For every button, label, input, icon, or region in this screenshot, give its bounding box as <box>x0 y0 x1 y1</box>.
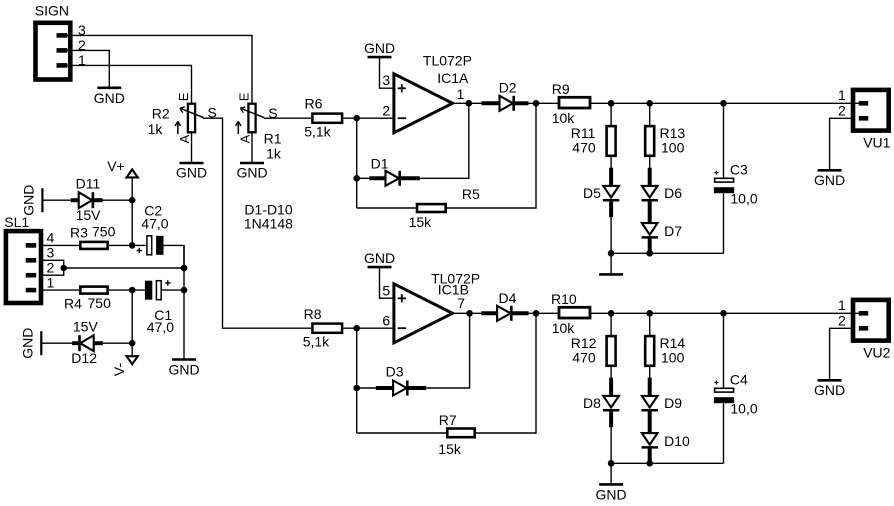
svg-text:6: 6 <box>382 313 390 329</box>
junction output/D1 feedback <box>466 100 473 107</box>
svg-text:D5: D5 <box>583 185 601 201</box>
diode D10 <box>648 412 652 434</box>
diode D3 <box>357 387 376 389</box>
svg-text:R8: R8 <box>304 306 322 322</box>
wire rail to ground <box>610 253 612 274</box>
wire rail to ground (bottom) <box>610 463 612 484</box>
junction C4 tap <box>720 310 727 317</box>
connector VU2 <box>853 300 889 341</box>
junction R11 tap <box>608 100 615 107</box>
junction D8 / rail <box>608 460 615 467</box>
wire R13 to D6 <box>649 157 651 170</box>
wire ground to D11 anode <box>42 199 70 201</box>
svg-text:15k: 15k <box>438 441 462 457</box>
svg-text:2: 2 <box>838 102 846 118</box>
wire rail to R11 <box>610 103 612 125</box>
junction D4/R7 <box>533 310 540 317</box>
junction R14 tap <box>646 310 653 317</box>
ground of bottom ladder <box>599 483 623 486</box>
capacitor C2 (polarized) <box>147 236 152 255</box>
ground left of D11 (rotated) <box>41 188 43 212</box>
ground of VU1 <box>818 169 842 172</box>
svg-text:GND: GND <box>176 164 207 180</box>
svg-text:1k: 1k <box>148 121 164 137</box>
ground under SIGN <box>97 87 121 90</box>
svg-text:D9: D9 <box>664 395 682 411</box>
wire rail to R13 <box>649 103 651 125</box>
svg-text:GND: GND <box>168 362 199 378</box>
diode D2 <box>482 101 500 105</box>
resistor R8 <box>312 324 342 333</box>
SIGN pin 3 bar <box>57 33 68 38</box>
resistor R3 <box>80 242 107 249</box>
svg-text:10k: 10k <box>552 110 576 126</box>
SL1 pin 1 bar <box>26 288 37 293</box>
diode D4 <box>481 311 497 315</box>
wire feedback left vertical (B) <box>356 328 358 433</box>
svg-text:R10: R10 <box>551 291 577 307</box>
svg-text:C4: C4 <box>730 371 748 387</box>
SIGN pin 1 bar <box>57 63 68 68</box>
junction R8/feedback <box>353 325 360 332</box>
wire D11 cathode to V+ node <box>103 199 133 201</box>
svg-text:D3: D3 <box>386 364 404 380</box>
V- supply symbol <box>131 343 133 356</box>
wire D4 to R10 <box>529 312 560 314</box>
SL1 pin 2 bar <box>26 273 37 278</box>
svg-text:15V: 15V <box>73 318 99 334</box>
svg-text:1k: 1k <box>266 146 282 162</box>
wire V+ node down to R3 node <box>131 200 133 245</box>
svg-text:E: E <box>236 92 251 101</box>
junction D3 row <box>353 385 360 392</box>
diode D1 <box>357 177 370 179</box>
wire R9 to VU1 pin 1 <box>590 102 860 104</box>
wire SL1 pin4 to R3 <box>41 244 79 246</box>
V+ supply symbol <box>131 177 133 200</box>
wire feedback left vertical (A) <box>356 118 358 208</box>
wire R14 to D9 <box>649 367 651 380</box>
svg-text:R5: R5 <box>462 186 480 202</box>
svg-text:3: 3 <box>47 245 55 261</box>
wire R1 wiper to R6 <box>264 117 311 119</box>
svg-text:GND: GND <box>364 40 395 56</box>
SL1 pin 3 bar <box>26 258 37 263</box>
junction R4/V- <box>129 287 136 294</box>
svg-text:100: 100 <box>661 349 685 365</box>
wire SIGN pin3 to R1 top <box>67 35 252 103</box>
connector VU1 <box>853 90 889 131</box>
junction C3 tap <box>720 100 727 107</box>
svg-text:R1: R1 <box>264 131 282 147</box>
wire R11 to D5 <box>610 157 612 170</box>
capacitor C1 (polarized) <box>145 281 152 300</box>
svg-text:5: 5 <box>382 282 390 298</box>
op-amp IC1B <box>394 284 453 343</box>
junction R6/feedback <box>353 115 360 122</box>
junction R13 tap <box>646 100 653 107</box>
svg-text:10,0: 10,0 <box>730 191 757 207</box>
svg-text:R9: R9 <box>552 81 570 97</box>
connector SIGN <box>36 23 71 80</box>
VU1 pin 2 bar <box>859 116 868 121</box>
svg-text:5,1k: 5,1k <box>303 333 330 349</box>
resistor R13 <box>645 126 654 156</box>
svg-text:D1: D1 <box>371 156 389 172</box>
node V+ junction <box>129 197 136 204</box>
wire D5 to ladder ground rail <box>610 217 612 253</box>
wire R4 node down to V- <box>131 290 133 343</box>
svg-text:V+: V+ <box>107 158 125 174</box>
wire R7 right to D4 cathode node <box>476 313 536 433</box>
svg-text:5,1k: 5,1k <box>304 123 331 139</box>
wire R8 to IC1B inverting input <box>344 327 394 329</box>
wire C2 to ground bus <box>164 245 185 268</box>
svg-text:D10: D10 <box>664 433 690 449</box>
svg-text:GND: GND <box>94 90 125 106</box>
svg-text:D2: D2 <box>499 79 517 95</box>
resistor R12 <box>607 336 616 366</box>
svg-text:VU1: VU1 <box>863 134 890 150</box>
wire rail to R12 <box>610 313 612 335</box>
svg-text:V-: V- <box>111 363 127 377</box>
svg-text:470: 470 <box>572 139 596 155</box>
potentiometer R1 <box>248 104 255 133</box>
SIGN pin 2 bar <box>57 48 68 53</box>
svg-text:D6: D6 <box>664 185 682 201</box>
junction ground bus / middle rail <box>181 265 188 272</box>
svg-text:7: 7 <box>457 295 465 311</box>
SL1 pin 4 bar <box>26 243 37 248</box>
VU2 pin 1 bar <box>859 311 868 316</box>
resistor R7 <box>447 429 474 438</box>
capacitor C4 (polarized) <box>723 313 725 388</box>
svg-text:C3: C3 <box>730 161 748 177</box>
svg-text:1: 1 <box>457 86 465 102</box>
svg-text:4: 4 <box>47 230 55 246</box>
svg-text:SIGN: SIGN <box>35 3 69 19</box>
svg-text:2: 2 <box>47 259 55 275</box>
ground bus vertical wire <box>183 245 185 359</box>
svg-text:10k: 10k <box>552 320 576 336</box>
diode D6 <box>648 168 652 187</box>
svg-text:TL072P: TL072P <box>423 53 472 69</box>
svg-text:IC1A: IC1A <box>437 70 469 86</box>
diode D8 <box>609 378 613 397</box>
wire D1 cathode to output <box>420 103 469 178</box>
svg-text:D8: D8 <box>583 395 601 411</box>
svg-text:D7: D7 <box>664 223 682 239</box>
wire middle rail to ground bus <box>64 267 184 269</box>
svg-text:10,0: 10,0 <box>730 401 757 417</box>
junction D7 / rail <box>646 250 653 257</box>
wire R3 to C2 <box>109 244 147 246</box>
wire IC1B output <box>453 312 484 314</box>
wire D12 anode to V- node <box>103 342 132 344</box>
junction D1 row <box>353 175 360 182</box>
op-amp IC1A <box>394 74 453 133</box>
wire SL1 pin1 to R4 <box>41 289 79 291</box>
wire R6 to IC1A inverting input <box>344 117 394 119</box>
svg-text:100: 100 <box>661 139 685 155</box>
svg-text:D11: D11 <box>76 176 101 192</box>
svg-text:R3: R3 <box>70 225 88 241</box>
svg-text:47,0: 47,0 <box>141 215 168 231</box>
svg-text:15V: 15V <box>76 207 102 223</box>
ladder ground rail (bottom channel) <box>611 462 723 464</box>
wire C1 to ground bus <box>161 289 184 291</box>
resistor R9 <box>559 97 590 108</box>
wire R10 to VU2 pin 1 <box>590 312 860 314</box>
zener diode D12 <box>72 341 78 345</box>
capacitor C3 (polarized) <box>723 103 725 178</box>
wire D8 to ladder ground rail <box>610 427 612 463</box>
wire VU1 pin2 to ground <box>830 118 855 169</box>
junction R3/V+/C2 <box>129 242 136 249</box>
ground left of D12 (rotated) <box>40 331 42 355</box>
resistor R4 <box>80 287 107 294</box>
svg-text:GND: GND <box>596 486 627 502</box>
svg-text:750: 750 <box>88 295 112 311</box>
svg-text:GND: GND <box>236 164 267 180</box>
resistor R11 <box>607 126 616 156</box>
ground of VU2 <box>818 379 842 382</box>
junction D5 / rail <box>608 250 615 257</box>
svg-text:47,0: 47,0 <box>147 319 174 335</box>
diode D5 <box>609 168 613 187</box>
svg-text:D12: D12 <box>71 350 97 366</box>
wire ground to IC1B pin 5 <box>380 268 394 298</box>
wire R7 left <box>357 432 446 434</box>
resistor R10 <box>559 307 590 318</box>
svg-text:1: 1 <box>47 274 55 290</box>
wire R12 to D8 <box>610 367 612 380</box>
svg-text:1: 1 <box>838 87 846 103</box>
ladder ground rail (top channel) <box>611 252 723 254</box>
svg-text:3: 3 <box>382 72 390 88</box>
svg-text:750: 750 <box>92 224 116 240</box>
junction ground bus / C1 <box>181 287 188 294</box>
junction V- node <box>129 340 136 347</box>
wire SL1 pin3 jog <box>41 260 64 275</box>
svg-text:2: 2 <box>838 312 846 328</box>
wire R5 left <box>357 207 416 209</box>
wire SIGN pin2 to ground <box>67 50 109 87</box>
connector SL1 <box>6 231 41 303</box>
svg-text:R7: R7 <box>439 412 457 428</box>
svg-text:GND: GND <box>814 382 845 398</box>
svg-text:470: 470 <box>572 349 596 365</box>
wire D2 to R9 <box>529 102 560 104</box>
svg-text:1N4148: 1N4148 <box>244 216 293 232</box>
resistor R5 <box>417 204 446 212</box>
potentiometer R2 <box>188 104 195 133</box>
resistor R14 <box>645 336 654 366</box>
wire ground to IC1A pin 3 <box>380 58 394 88</box>
svg-text:GND: GND <box>814 172 845 188</box>
junction R12 tap <box>608 310 615 317</box>
wire R5 right to D2 cathode node <box>447 103 536 208</box>
wire D3 cathode to output <box>426 313 469 388</box>
svg-text:GND: GND <box>364 250 395 266</box>
ground of bus <box>172 358 196 361</box>
diode D9 <box>648 378 652 397</box>
ground of top ladder <box>599 273 623 276</box>
VU2 pin 2 bar <box>859 326 868 331</box>
svg-text:A: A <box>238 134 253 143</box>
wire IC1A output <box>453 102 482 104</box>
junction output/D3 feedback <box>466 310 473 317</box>
junction D2/R5 <box>533 100 540 107</box>
wire rail to R14 <box>649 313 651 335</box>
svg-text:15k: 15k <box>409 214 433 230</box>
VU1 pin 1 bar <box>859 101 868 106</box>
junction SL1 pins 2-3 <box>60 265 67 272</box>
resistor R6 <box>312 114 342 123</box>
svg-text:GND: GND <box>21 185 37 216</box>
svg-text:A: A <box>177 134 192 143</box>
zener diode D11 <box>71 198 79 202</box>
svg-text:2: 2 <box>382 103 390 119</box>
wire VU2 pin2 to ground <box>830 328 855 379</box>
svg-text:1: 1 <box>838 297 846 313</box>
svg-text:R4: R4 <box>64 296 82 312</box>
wire R2 wiper to R8 (left channel in) <box>203 118 311 328</box>
svg-text:E: E <box>176 92 191 101</box>
svg-text:D4: D4 <box>499 290 517 306</box>
wire SIGN pin1 to R2 top <box>67 65 192 103</box>
junction D10 / rail <box>646 460 653 467</box>
svg-text:R6: R6 <box>305 95 323 111</box>
svg-text:R2: R2 <box>152 105 170 121</box>
svg-text:GND: GND <box>20 328 36 359</box>
wire ground to D12 cathode <box>41 342 72 344</box>
diode D7 <box>648 202 652 224</box>
svg-text:VU2: VU2 <box>863 344 890 360</box>
wire R4 to C1 <box>109 289 145 291</box>
